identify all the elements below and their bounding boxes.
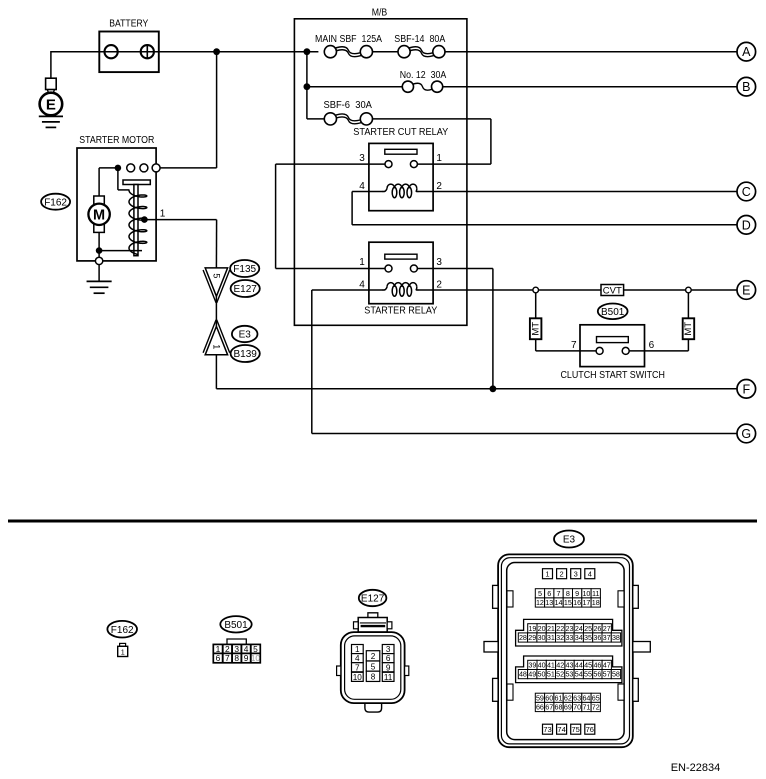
svg-text:16: 16	[573, 598, 581, 607]
svg-text:E3: E3	[563, 535, 576, 546]
wire: M/B internal bus	[306, 52, 308, 119]
svg-text:13: 13	[545, 598, 553, 607]
svg-text:No. 12 30A: No. 12 30A	[400, 70, 447, 81]
connector to ground (sealed)	[46, 78, 57, 89]
node: junction row B	[304, 83, 311, 90]
svg-text:MT: MT	[683, 322, 694, 336]
contact points	[127, 164, 135, 172]
node: solenoid contact feed	[115, 165, 122, 172]
wire pin1 row	[276, 268, 386, 270]
node: terminal 1 of starter motor	[141, 216, 148, 223]
wire	[535, 339, 537, 351]
svg-text:BATTERY: BATTERY	[109, 18, 148, 29]
svg-text:47: 47	[603, 661, 611, 670]
svg-text:75: 75	[572, 725, 580, 734]
svg-text:7: 7	[557, 589, 561, 598]
connector label E3	[232, 326, 258, 342]
svg-text:STARTER MOTOR: STARTER MOTOR	[79, 135, 154, 146]
svg-text:B139: B139	[234, 349, 258, 360]
svg-text:6: 6	[386, 654, 391, 663]
svg-text:40: 40	[538, 661, 546, 670]
svg-text:51: 51	[547, 670, 555, 679]
battery minus terminal	[105, 45, 118, 58]
wire SBF-6 row	[307, 118, 324, 120]
wire: to row F	[215, 355, 217, 389]
svg-text:69: 69	[564, 703, 572, 712]
pin 6	[622, 347, 629, 354]
wire row A to terminal A	[445, 51, 737, 53]
svg-text:56: 56	[593, 670, 601, 679]
svg-text:58: 58	[612, 670, 620, 679]
svg-text:5: 5	[538, 589, 542, 598]
svg-text:F162: F162	[111, 625, 134, 636]
svg-text:33: 33	[565, 633, 573, 642]
svg-text:32: 32	[556, 633, 564, 642]
wire: down to starter motor contact	[216, 52, 218, 168]
svg-text:41: 41	[547, 661, 555, 670]
svg-text:72: 72	[592, 703, 600, 712]
ground E circle	[40, 93, 63, 116]
svg-text:G: G	[741, 427, 751, 441]
svg-text:F162: F162	[44, 197, 67, 208]
separator line	[8, 520, 757, 523]
wire: coil pin 2 to terminal E	[418, 289, 738, 291]
svg-text:14: 14	[555, 598, 563, 607]
svg-text:10: 10	[353, 673, 363, 682]
svg-text:63: 63	[573, 693, 581, 702]
svg-text:28: 28	[519, 633, 527, 642]
svg-text:38: 38	[612, 633, 620, 642]
terminal D	[737, 216, 756, 235]
connector label B139	[231, 345, 260, 362]
svg-text:61: 61	[555, 693, 563, 702]
svg-text:26: 26	[593, 624, 601, 633]
svg-text:59: 59	[536, 693, 544, 702]
svg-text:7: 7	[571, 340, 577, 351]
wire: coil pin 4 to terminal G	[312, 289, 384, 291]
svg-text:50: 50	[538, 670, 546, 679]
svg-text:35: 35	[584, 633, 592, 642]
svg-text:1: 1	[211, 344, 221, 349]
svg-text:MT: MT	[530, 322, 541, 336]
wire	[99, 167, 118, 169]
wire: motor to ground	[98, 232, 100, 250]
svg-text:9: 9	[575, 589, 579, 598]
svg-text:42: 42	[556, 661, 564, 670]
node: junction M/B feed	[304, 48, 311, 55]
node: junction left MT branch	[533, 287, 539, 293]
svg-text:70: 70	[573, 703, 581, 712]
svg-text:EN-22834: EN-22834	[671, 762, 721, 774]
wire: battery feed row A	[51, 51, 99, 53]
svg-text:E127: E127	[361, 594, 385, 605]
svg-text:B: B	[742, 80, 750, 94]
svg-text:18: 18	[592, 598, 600, 607]
svg-text:44: 44	[575, 661, 583, 670]
svg-text:6: 6	[649, 340, 655, 351]
svg-text:F135: F135	[233, 264, 256, 275]
svg-text:3: 3	[574, 570, 578, 579]
starter relay	[369, 242, 433, 304]
svg-text:53: 53	[565, 670, 573, 679]
svg-text:E3: E3	[239, 330, 252, 341]
svg-text:SBF-14 80A: SBF-14 80A	[394, 34, 445, 45]
svg-text:D: D	[742, 218, 751, 232]
wire row A between fuses	[373, 51, 399, 53]
node: junction battery feed	[213, 48, 220, 55]
svg-text:65: 65	[592, 693, 600, 702]
svg-text:24: 24	[575, 624, 583, 633]
wire	[50, 51, 52, 78]
svg-text:A: A	[742, 45, 751, 59]
svg-text:30: 30	[538, 633, 546, 642]
svg-text:E: E	[742, 284, 750, 298]
relay coil (starter relay)	[383, 289, 385, 291]
wire: coil pin 4 to terminal D	[352, 191, 383, 193]
svg-text:2: 2	[560, 570, 564, 579]
svg-text:62: 62	[564, 693, 572, 702]
svg-text:64: 64	[582, 693, 590, 702]
plunger	[123, 180, 150, 185]
svg-text:55: 55	[584, 670, 592, 679]
wire through battery row A	[99, 51, 318, 53]
svg-text:1: 1	[355, 645, 360, 654]
svg-text:67: 67	[545, 703, 553, 712]
svg-text:15: 15	[564, 598, 572, 607]
relay coil (starter cut relay)	[383, 191, 385, 193]
svg-text:M: M	[93, 208, 105, 224]
svg-text:CLUTCH START SWITCH: CLUTCH START SWITCH	[560, 370, 665, 381]
svg-text:29: 29	[528, 633, 536, 642]
svg-text:CVT: CVT	[603, 285, 622, 296]
svg-text:39: 39	[528, 661, 536, 670]
svg-text:76: 76	[586, 725, 594, 734]
wire: pin 3 to node F	[417, 268, 493, 270]
svg-text:23: 23	[566, 624, 574, 633]
svg-text:19: 19	[528, 624, 536, 633]
svg-text:2: 2	[436, 181, 442, 192]
svg-text:1: 1	[545, 570, 549, 579]
svg-text:M/B: M/B	[372, 8, 388, 19]
pin 7	[596, 347, 603, 354]
svg-text:21: 21	[547, 624, 555, 633]
svg-text:5: 5	[371, 662, 376, 671]
svg-text:11: 11	[384, 673, 393, 682]
svg-text:1: 1	[359, 257, 365, 268]
svg-text:10: 10	[251, 653, 261, 663]
svg-text:C: C	[742, 185, 751, 199]
svg-text:STARTER CUT RELAY: STARTER CUT RELAY	[353, 127, 448, 138]
wire row B to terminal B	[443, 86, 738, 88]
node: junction row F	[490, 385, 497, 392]
svg-text:E: E	[46, 96, 56, 113]
svg-text:B501: B501	[601, 307, 625, 318]
svg-text:1: 1	[121, 648, 125, 657]
svg-text:52: 52	[556, 670, 564, 679]
wire: pin3 to starter relay pin 1	[275, 164, 277, 268]
svg-text:4: 4	[359, 280, 365, 291]
contact bar	[385, 149, 417, 154]
svg-text:8: 8	[566, 589, 570, 598]
connector view F162	[107, 621, 137, 638]
svg-text:43: 43	[566, 661, 574, 670]
svg-text:11: 11	[592, 589, 599, 598]
svg-text:71: 71	[582, 703, 590, 712]
svg-text:SBF-6 30A: SBF-6 30A	[323, 100, 372, 111]
svg-text:31: 31	[547, 633, 555, 642]
terminal E	[737, 281, 756, 300]
svg-text:5: 5	[211, 273, 221, 278]
svg-text:4: 4	[359, 181, 365, 192]
svg-text:8: 8	[234, 653, 239, 663]
connector label E127	[231, 280, 260, 297]
pin 3	[410, 265, 417, 272]
svg-text:7: 7	[225, 653, 230, 663]
terminal A	[737, 42, 756, 61]
svg-text:48: 48	[519, 670, 527, 679]
svg-text:12: 12	[536, 598, 544, 607]
connector view E3	[554, 531, 584, 548]
connector label F135	[230, 260, 259, 277]
motor M	[94, 196, 105, 232]
wire between connectors	[215, 296, 217, 326]
svg-text:3: 3	[436, 257, 442, 268]
CVT tag	[601, 285, 624, 296]
svg-text:1: 1	[160, 209, 166, 220]
svg-text:10: 10	[582, 589, 590, 598]
svg-text:45: 45	[584, 661, 592, 670]
wire: terminal 1 to connector	[144, 219, 216, 221]
terminal B	[737, 77, 756, 96]
terminal C	[737, 182, 756, 201]
svg-text:46: 46	[593, 661, 601, 670]
pin 3	[385, 161, 392, 168]
svg-text:25: 25	[584, 624, 592, 633]
svg-text:34: 34	[575, 633, 583, 642]
svg-text:3: 3	[359, 153, 365, 164]
svg-text:1: 1	[436, 153, 442, 164]
svg-text:E127: E127	[234, 284, 258, 295]
svg-text:4: 4	[588, 570, 592, 579]
svg-text:F: F	[742, 382, 750, 396]
svg-text:9: 9	[244, 653, 249, 663]
svg-text:7: 7	[355, 663, 360, 672]
svg-text:9: 9	[386, 663, 391, 672]
svg-text:MAIN SBF 125A: MAIN SBF 125A	[315, 34, 382, 45]
terminal G	[737, 424, 756, 443]
connector view B501	[220, 616, 251, 632]
connector label B501	[598, 304, 628, 320]
connector view E127	[359, 590, 387, 606]
svg-text:36: 36	[593, 633, 601, 642]
svg-text:74: 74	[557, 725, 565, 734]
svg-text:6: 6	[547, 589, 551, 598]
svg-text:27: 27	[603, 624, 611, 633]
svg-text:66: 66	[536, 703, 544, 712]
svg-text:3: 3	[386, 645, 391, 654]
svg-text:STARTER RELAY: STARTER RELAY	[364, 306, 437, 317]
pin 1	[385, 265, 392, 272]
svg-text:60: 60	[545, 693, 553, 702]
wire pin3 row	[276, 163, 386, 165]
svg-text:54: 54	[575, 670, 583, 679]
svg-text:B501: B501	[224, 620, 248, 631]
wire: coil pin 2 to terminal C	[418, 191, 738, 193]
ground symbol (starter motor)	[87, 280, 112, 282]
solenoid pull-in coil	[129, 190, 147, 254]
connector F135/E127 (inline pin 5)	[205, 268, 227, 296]
svg-text:68: 68	[555, 703, 563, 712]
connector E3/B139 (inline pin 1)	[205, 326, 227, 354]
contact bar	[385, 254, 417, 259]
ground symbol (battery)	[39, 115, 63, 117]
svg-text:49: 49	[528, 670, 536, 679]
svg-text:17: 17	[582, 598, 590, 607]
terminal F	[737, 380, 756, 399]
svg-text:8: 8	[371, 673, 376, 682]
pin 1	[410, 161, 417, 168]
wire: contact to battery feed	[156, 167, 217, 169]
node: junction right MT branch	[686, 287, 692, 293]
MT tag right	[687, 293, 689, 319]
clutch start switch	[580, 325, 645, 367]
svg-text:2: 2	[371, 652, 376, 661]
svg-text:20: 20	[538, 624, 546, 633]
wire row B	[307, 86, 403, 88]
svg-text:2: 2	[436, 280, 442, 291]
connector label F162	[41, 194, 70, 210]
svg-text:57: 57	[603, 670, 611, 679]
svg-text:22: 22	[556, 624, 564, 633]
svg-text:73: 73	[543, 725, 551, 734]
battery plus terminal	[141, 45, 154, 58]
svg-text:6: 6	[216, 653, 221, 663]
svg-text:4: 4	[355, 654, 360, 663]
svg-text:37: 37	[603, 633, 611, 642]
wire	[687, 339, 689, 351]
MT tag left	[535, 293, 537, 319]
wire SBF-6 to starter cut relay pin 1	[373, 118, 491, 120]
